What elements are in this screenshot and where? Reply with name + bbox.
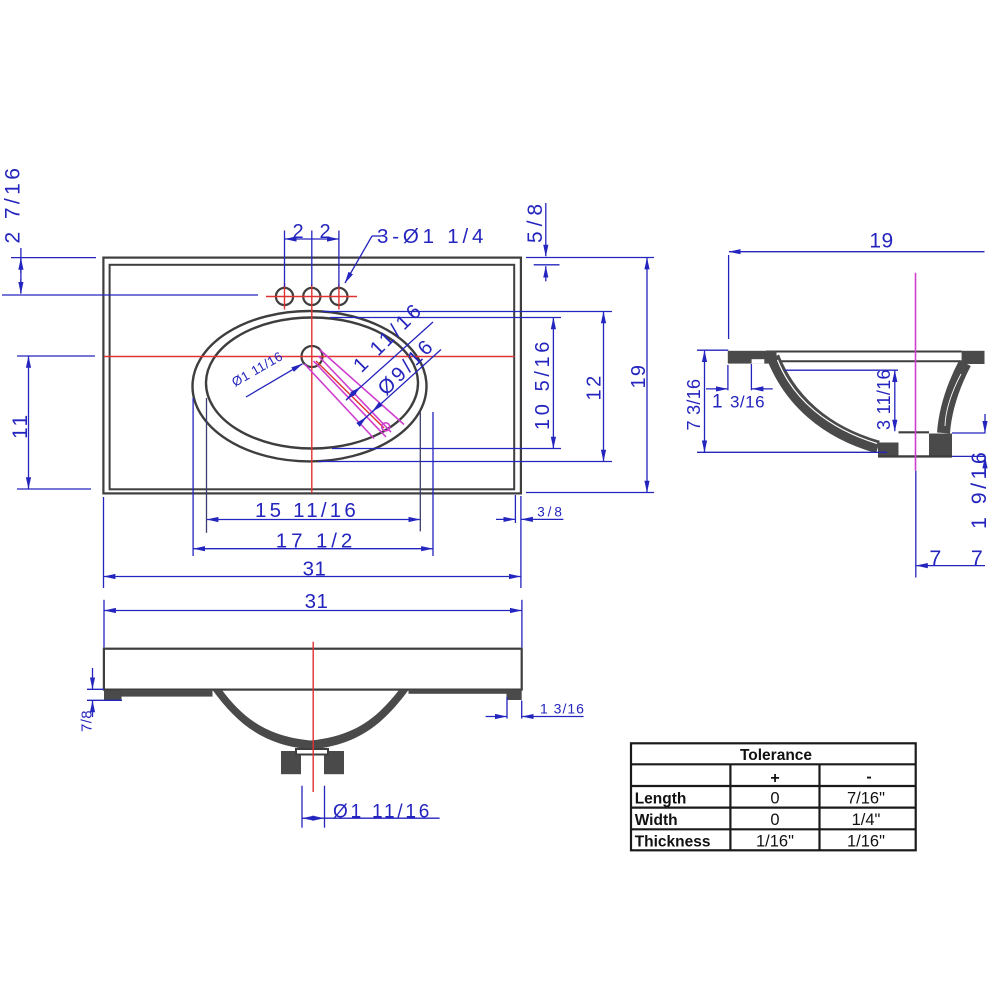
front left lip — [104, 691, 122, 701]
side bowl left wall highlight — [778, 360, 878, 444]
front drain right block — [324, 751, 344, 774]
table outer border — [631, 743, 916, 850]
svg-text:31: 31 — [303, 558, 327, 581]
dimension 17 1/2 (outer oval width) — [193, 398, 433, 556]
red tick left hole — [284, 284, 286, 310]
table row line 3 — [631, 806, 916, 808]
svg-text:5/8: 5/8 — [524, 199, 547, 243]
dimension 2 7/16 (top edge to faucet line) — [2, 248, 258, 295]
dimension 5/8 (top right edge thickness) — [526, 203, 654, 281]
front drain flange — [296, 749, 328, 755]
magenta overflow line inner lower — [314, 361, 387, 437]
side left rim notch — [752, 359, 765, 363]
svg-text:1/4": 1/4" — [852, 811, 881, 829]
side left rim bar — [728, 351, 777, 364]
red horizontal centerline — [104, 356, 515, 358]
dimension 7/8 (front lip height) — [87, 668, 122, 717]
dimension 19 (plan depth) — [526, 258, 654, 493]
dimension 1 and 3/16 (side rim steps) — [706, 364, 773, 390]
svg-text:19: 19 — [628, 364, 650, 389]
dimension 10 5/16 (inner oval height) — [330, 318, 561, 449]
svg-text:11: 11 — [9, 412, 32, 439]
table row line 1 — [631, 763, 916, 765]
front red centerline — [312, 642, 314, 792]
side drain left block — [878, 443, 899, 458]
svg-text:+: + — [770, 770, 779, 787]
svg-text:3/8: 3/8 — [537, 505, 564, 520]
side drain top line — [899, 431, 930, 433]
front drain left block — [281, 751, 301, 774]
svg-text:31: 31 — [305, 590, 329, 613]
svg-text:12: 12 — [584, 373, 606, 400]
dimension 31 (plan width) — [104, 496, 521, 588]
front underside band right — [409, 690, 522, 694]
side blue centerline extension — [915, 471, 917, 578]
side magenta centerline — [915, 273, 917, 471]
magenta overflow line outer lower — [305, 364, 375, 439]
table column line 2 — [818, 764, 820, 850]
table column line 1 — [729, 764, 731, 850]
svg-text:7 3/16: 7 3/16 — [684, 379, 704, 431]
side rim inner line — [766, 360, 962, 362]
basin outer oval — [193, 311, 427, 461]
front right lip — [507, 694, 522, 701]
side bowl right wall — [944, 363, 966, 433]
svg-text:1/16": 1/16" — [756, 832, 794, 850]
svg-text:7: 7 — [971, 546, 983, 570]
svg-text:2: 2 — [292, 221, 303, 243]
faucet hole right — [330, 288, 347, 305]
side right rim bar — [962, 351, 985, 364]
faucet hole left — [276, 288, 293, 305]
front underside band left — [106, 691, 213, 697]
side top surface line — [766, 351, 962, 353]
dimension diam 1 11/16 (front drain width) — [302, 786, 440, 828]
table row line 4 — [631, 828, 916, 830]
dimension 7 7 (drain position) — [916, 565, 985, 567]
svg-text:17 1/2: 17 1/2 — [276, 530, 356, 553]
svg-text:1 9/16: 1 9/16 — [967, 449, 991, 529]
svg-text:Tolerance: Tolerance — [740, 747, 812, 764]
red tick right hole — [338, 284, 340, 310]
svg-text:3-Ø1 1/4: 3-Ø1 1/4 — [377, 225, 487, 248]
svg-text:10 5/16: 10 5/16 — [532, 338, 554, 430]
dimension 1 3/16 (front right lip) — [486, 697, 584, 719]
svg-text:7/16": 7/16" — [847, 790, 885, 808]
dimension 2 2 (faucet hole spacing) — [285, 231, 339, 288]
svg-text:Ø1 11/16: Ø1 11/16 — [333, 802, 432, 823]
magenta overflow outlet circle — [382, 423, 390, 431]
dimension 7 3/16 (side height) — [697, 350, 887, 452]
svg-text:2 7/16: 2 7/16 — [2, 165, 25, 244]
basin inner oval — [206, 318, 418, 449]
countertop inner rectangle — [110, 265, 515, 490]
dimension diam 9/16 (overflow inner width, rotated) — [359, 350, 441, 425]
dimension 3/8 (right edge inset) — [496, 495, 563, 523]
svg-text:1 3/16: 1 3/16 — [540, 701, 585, 717]
svg-text:7: 7 — [929, 546, 941, 570]
countertop outer rectangle — [103, 258, 521, 494]
svg-text:1: 1 — [712, 392, 723, 413]
drain hole circle — [302, 346, 323, 367]
table row line 2 — [631, 785, 916, 787]
dimension 31 (front width) — [104, 600, 522, 648]
dimension 3 11/16 (bowl depth) — [785, 370, 898, 431]
dimension 1 9/16 (drain height) — [952, 414, 986, 476]
magenta overflow line inner upper — [319, 356, 392, 432]
dimension 12 (outer oval height) — [318, 312, 612, 462]
svg-text:Length: Length — [635, 791, 687, 808]
faucet hole center — [303, 288, 320, 305]
dimension 19 (side width) — [729, 252, 985, 339]
svg-text:19: 19 — [869, 230, 893, 253]
front slab outline — [104, 649, 522, 690]
svg-text:3 11/16: 3 11/16 — [874, 369, 894, 430]
front bowl wall — [213, 690, 409, 750]
svg-text:-: - — [866, 769, 871, 786]
svg-text:Width: Width — [635, 812, 678, 829]
side drain bottom line — [878, 455, 952, 457]
dimension 11 (centerline to bottom) — [17, 356, 95, 489]
leader 3-diam 1 1/4 (faucet holes callout) — [345, 236, 381, 283]
side bowl right wall highlight — [945, 374, 961, 426]
magenta overflow line outer upper — [320, 350, 405, 425]
svg-text:1/16": 1/16" — [847, 832, 885, 850]
red overflow axis diagonal — [316, 361, 384, 428]
red faucet holes centerline — [266, 296, 357, 298]
side drain right block — [929, 434, 952, 458]
dimension 1 11/16 (overflow outer width, rotated) — [346, 322, 433, 400]
dimension 15 11/16 (inner oval width) — [207, 398, 421, 533]
red vertical centerline — [311, 284, 313, 493]
svg-text:15 11/16: 15 11/16 — [255, 499, 359, 522]
svg-text:0: 0 — [770, 790, 779, 808]
leader diam 1 11/16 (drain hole callout) — [246, 364, 303, 397]
svg-text:Thickness: Thickness — [635, 833, 711, 850]
svg-text:0: 0 — [770, 811, 779, 829]
svg-text:3/16: 3/16 — [730, 393, 765, 412]
side bowl left wall — [773, 357, 878, 447]
svg-text:7/8: 7/8 — [79, 710, 96, 732]
svg-text:2: 2 — [319, 221, 330, 243]
